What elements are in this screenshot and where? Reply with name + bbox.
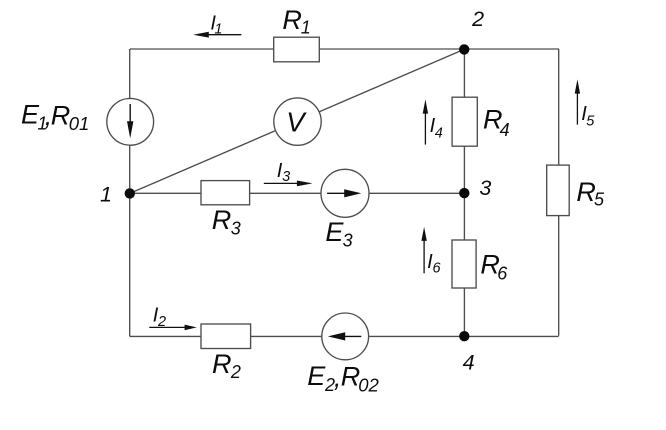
svg-text:R: R [212, 205, 232, 235]
svg-text:5: 5 [586, 113, 595, 129]
svg-text:2: 2 [230, 362, 241, 382]
svg-text:1: 1 [214, 22, 222, 38]
svg-text:R: R [282, 5, 302, 35]
svg-text:3: 3 [343, 230, 353, 250]
svg-text:4: 4 [435, 126, 443, 142]
svg-text:6: 6 [497, 263, 508, 283]
svg-text:6: 6 [433, 261, 442, 277]
svg-text:4: 4 [500, 120, 510, 140]
svg-text:E: E [325, 217, 344, 247]
svg-text:1: 1 [301, 18, 311, 38]
svg-text:R: R [51, 100, 71, 130]
svg-text:R: R [212, 349, 232, 379]
svg-text:1: 1 [100, 183, 112, 207]
svg-text:5: 5 [594, 190, 605, 210]
svg-text:3: 3 [479, 176, 491, 200]
svg-text:02: 02 [358, 374, 379, 395]
svg-text:2: 2 [471, 7, 484, 31]
svg-text:2: 2 [157, 314, 166, 330]
svg-text:R: R [576, 177, 596, 207]
svg-text:4: 4 [463, 351, 475, 375]
svg-text:3: 3 [282, 169, 290, 185]
svg-text:V: V [286, 107, 307, 138]
svg-text:E: E [307, 361, 326, 391]
svg-text:3: 3 [231, 218, 241, 238]
svg-text:01: 01 [69, 113, 90, 134]
